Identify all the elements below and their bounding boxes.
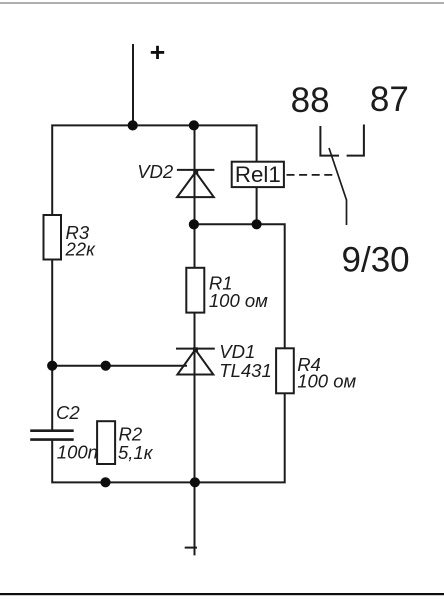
svg-text:87: 87 (370, 80, 409, 119)
svg-text:VD1: VD1 (219, 341, 255, 362)
svg-text:88: 88 (291, 81, 330, 120)
svg-text:TL431: TL431 (219, 360, 271, 381)
svg-text:Rel1: Rel1 (235, 162, 281, 187)
svg-text:5,1к: 5,1к (118, 442, 154, 463)
svg-text:100 ом: 100 ом (209, 290, 268, 311)
svg-text:9/30: 9/30 (342, 241, 410, 280)
svg-text:100 ом: 100 ом (297, 371, 356, 392)
svg-text:C2: C2 (56, 402, 80, 423)
svg-text:22к: 22к (65, 239, 97, 260)
svg-text:100n: 100n (57, 442, 98, 463)
svg-text:VD2: VD2 (137, 161, 174, 182)
